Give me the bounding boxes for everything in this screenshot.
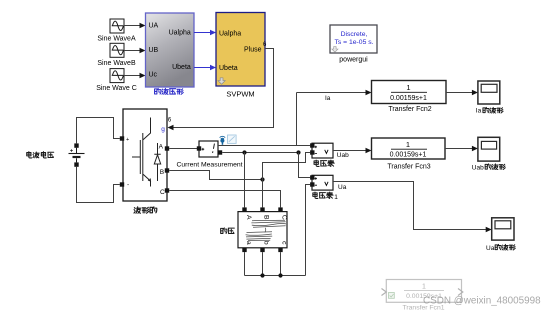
- scope Ia的波形: [476, 81, 503, 115]
- voltage measurement 电压表1 (Ua): [310, 175, 338, 201]
- svg-text:0.00159s+1: 0.00159s+1: [390, 95, 427, 102]
- svg-text:Pluse: Pluse: [244, 47, 262, 54]
- svg-text:Sine Wave C: Sine Wave C: [96, 85, 137, 92]
- powergui block: [330, 25, 377, 64]
- svg-text:Discrete,: Discrete,: [341, 31, 368, 38]
- junction dot B row: [260, 177, 264, 181]
- svg-text:Current Measurement: Current Measurement: [176, 161, 242, 168]
- wire inverter C row: [169, 191, 280, 208]
- svg-text:Transfer Fcn2: Transfer Fcn2: [388, 106, 431, 113]
- svg-text:SVPWM: SVPWM: [226, 89, 254, 98]
- svg-text:1: 1: [334, 194, 338, 201]
- svg-text:Ubeta: Ubeta: [172, 64, 191, 71]
- load block 负载: [221, 207, 288, 252]
- svg-text:A: A: [245, 215, 252, 220]
- wire Sine WaveB to UB: [124, 48, 146, 54]
- svg-text:1: 1: [406, 83, 410, 92]
- svg-text:Ts = 1e-05 s.: Ts = 1e-05 s.: [334, 39, 373, 46]
- scope Ua的波形: [486, 218, 515, 252]
- svg-text:6: 6: [168, 118, 172, 124]
- svg-text:6: 6: [263, 42, 267, 48]
- transfer function Transfer Fcn2: [372, 81, 447, 114]
- wire phase A: CM i output to VM1 + , with Ia branch: [218, 90, 372, 146]
- svg-text:Uab: Uab: [337, 152, 349, 159]
- svg-text:CSDN @weixin_48005998: CSDN @weixin_48005998: [423, 296, 541, 307]
- wire inverter B row: [169, 171, 262, 180]
- svg-text:1: 1: [422, 284, 426, 291]
- svg-text:c: c: [280, 241, 287, 245]
- wire neutral to VM2 -: [306, 185, 311, 276]
- svg-text:Uab: Uab: [472, 164, 484, 171]
- wire DC- to inverter -: [77, 167, 120, 203]
- svg-text:B: B: [263, 215, 270, 220]
- wire Transfer Fcn3 to scope Uab的波形: [445, 146, 478, 152]
- scope Uab的波形: [472, 137, 505, 171]
- wire Pluse to inverter gate g: [168, 49, 274, 131]
- svg-text:g: g: [161, 126, 165, 133]
- svg-text:a: a: [245, 241, 252, 245]
- wire VM2 v to scope Ua的波形: [333, 182, 492, 233]
- wire branch B up to VM1 -: [263, 153, 311, 180]
- svg-text:Ualpha: Ualpha: [169, 30, 191, 37]
- wire inverter A to Current Measurement: [169, 148, 197, 150]
- wire phase A electrical row: [222, 150, 300, 154]
- current measurement block: [176, 141, 242, 168]
- badge linearization (pale blue square): [228, 135, 237, 143]
- wire Sine WaveA to UA: [124, 23, 146, 29]
- svg-text:UA: UA: [149, 23, 159, 30]
- DC voltage source 直流电源: [27, 143, 85, 166]
- subsystem 坐标转换 (coordinate transform): [146, 13, 195, 94]
- wire Ubeta (blue signal): [194, 65, 216, 71]
- badge signal logging (blue pin): [220, 136, 226, 145]
- sine wave source Sine WaveB: [97, 43, 136, 67]
- svg-text:Ia: Ia: [476, 108, 482, 115]
- svg-text:Ia: Ia: [325, 95, 331, 102]
- wire Ualpha (blue signal): [194, 30, 216, 36]
- wire VM1 v to Transfer Fcn3: [333, 148, 372, 154]
- svg-text:UB: UB: [149, 47, 159, 54]
- svg-text:Ualpha: Ualpha: [219, 31, 241, 38]
- wire branch B down to load B: [262, 180, 264, 208]
- wire Transfer Fcn2 to scope Ia的波形: [446, 90, 478, 96]
- sine wave source Sine Wave C: [96, 69, 137, 92]
- wire Sine Wave C to Uc: [124, 73, 146, 79]
- subsystem SVPWM: [216, 13, 265, 99]
- svg-text:Transfer Fcn3: Transfer Fcn3: [387, 163, 430, 170]
- svg-text:Sine WaveB: Sine WaveB: [97, 60, 136, 67]
- svg-text:0.00159s+1: 0.00159s+1: [390, 152, 427, 159]
- svg-text:C: C: [160, 189, 165, 196]
- svg-text:b: b: [263, 241, 270, 245]
- svg-text:Sine WaveA: Sine WaveA: [97, 36, 136, 43]
- wire load bottoms to neutral bus: [245, 252, 306, 278]
- svg-text:+: +: [126, 137, 129, 143]
- svg-text:C: C: [280, 215, 287, 220]
- svg-text:1: 1: [406, 140, 410, 149]
- transfer function Transfer Fcn1 (disabled/faded): [382, 280, 463, 312]
- svg-text:-: -: [127, 182, 129, 189]
- wire branch A down to load A: [244, 153, 246, 208]
- wire DC+ to inverter +: [77, 118, 120, 144]
- svg-text:Ubeta: Ubeta: [219, 65, 238, 72]
- svg-text:A: A: [159, 144, 164, 151]
- voltage measurement 电压表 (Uab): [310, 143, 334, 166]
- wire branch A to VM2 +: [299, 153, 311, 178]
- svg-text:B: B: [160, 169, 164, 176]
- sine wave source Sine WaveA: [97, 19, 136, 43]
- svg-text:Uc: Uc: [149, 72, 158, 79]
- transfer function Transfer Fcn3: [372, 138, 446, 170]
- svg-text:Ua: Ua: [486, 245, 495, 252]
- inverter bridge 逆变器: [120, 109, 169, 213]
- svg-text:powergui: powergui: [339, 57, 368, 64]
- svg-text:Ua: Ua: [338, 184, 347, 191]
